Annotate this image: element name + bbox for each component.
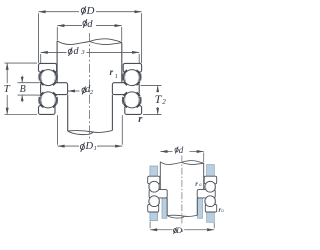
dim phiD1 extension lines: [57, 115, 59, 144]
label T2 letter: [155, 92, 162, 107]
bottom washer right piece: [125, 106, 142, 115]
phi of phid: [83, 19, 87, 28]
dim phid extension lines: [56, 27, 58, 40]
dim T2 extension lines: [141, 85, 162, 87]
ball lower-left: [40, 92, 56, 108]
dim phid line: [57, 25, 82, 27]
cage marks upper-left ball: [39, 74, 57, 81]
small bottom washer left piece: [148, 204, 159, 212]
shaft lower narrow section (phi d2): [68, 95, 113, 135]
label r: [138, 114, 142, 125]
housing left band: [150, 166, 158, 221]
ball upper-left: [40, 70, 56, 86]
small center washer right piece: [197, 190, 215, 198]
label phiD1 subscript: [94, 146, 97, 152]
cage marks upper-right ball: [123, 74, 141, 81]
shaft upper wide section (phi d): [57, 39, 122, 83]
vertical center line (axis): [89, 33, 91, 141]
small ball upper-left: [149, 181, 160, 192]
small top washer left piece: [148, 176, 160, 184]
label phiD letter: [87, 5, 95, 17]
dim B extension lines: [18, 82, 40, 84]
label small ra upper subscript: [199, 183, 202, 188]
dim phiD1 line: [58, 145, 80, 147]
center washer left piece: [41, 83, 68, 95]
small dim phid extension: [203, 153, 205, 163]
label T2 subscript: [162, 98, 166, 106]
small shaft top break line: [160, 161, 203, 165]
label r1 letter: [110, 68, 114, 78]
dim T line: [6, 63, 8, 83]
dim phid3 extension lines: [40, 54, 42, 63]
label phid2 subscript: [90, 89, 93, 96]
small shaft upper section: [159, 162, 161, 190]
label small ra lower subscript: [221, 209, 224, 214]
phi of phid3: [68, 47, 72, 56]
small dim phid line: [160, 151, 172, 153]
label phid3 subscript: [81, 49, 84, 56]
small dim phiDa extension lines: [149, 222, 151, 229]
small shaft bottom break line: [167, 215, 197, 216]
phi of small phid: [175, 147, 178, 154]
cage marks lower-left ball: [39, 97, 57, 104]
shaft sleeve right band: [198, 198, 203, 218]
small ball lower-right: [205, 196, 216, 207]
label small ra lower letter: [219, 206, 222, 214]
dim B arrowheads: [21, 77, 24, 83]
small ball lower-left: [149, 196, 160, 207]
label phiD1 letter: [86, 141, 94, 152]
label small phiDa letter: [176, 226, 182, 235]
phi of phiD1: [80, 143, 84, 152]
dim T extension lines: [5, 62, 38, 64]
dim phiD extension lines: [38, 13, 40, 63]
ball lower-right: [124, 92, 140, 108]
small center line: [181, 156, 183, 226]
label phid2 letter: [85, 84, 90, 95]
small shaft narrow section: [166, 198, 168, 216]
label small ra upper letter: [195, 180, 198, 188]
ball upper-right: [124, 70, 140, 86]
cage marks lower-right ball: [123, 97, 141, 104]
housing shoulder blocks: [150, 165, 214, 223]
small top washer right piece: [204, 176, 217, 184]
label r1 subscript: [115, 73, 118, 80]
dim T2 arrowheads: [156, 86, 159, 93]
phi of small phiDa: [174, 227, 177, 234]
dim phiD line: [39, 11, 80, 13]
small center washer left piece: [149, 190, 167, 198]
label phid letter: [87, 19, 92, 30]
small ball upper-right: [205, 181, 216, 192]
dim T2 line: [157, 86, 159, 92]
dim phid3 line: [41, 51, 67, 53]
label small phiDa subscript: [181, 229, 184, 234]
small bottom washer right piece: [205, 204, 216, 212]
dim phid2 leader with left arrow: [68, 90, 80, 92]
center washer right piece: [112, 83, 139, 95]
top washer right piece: [123, 63, 141, 72]
arrowheads for vertical dimensions: [6, 63, 159, 114]
label phid3 letter: [74, 46, 79, 57]
label small phid letter: [179, 145, 184, 155]
shaft top break line: [57, 39, 122, 45]
phi of phid2: [82, 86, 86, 94]
label T: [4, 83, 10, 95]
phi of phiD: [81, 6, 86, 15]
housing right band: [207, 165, 215, 223]
top washer left piece: [39, 63, 57, 72]
dim B arrow stems: [21, 76, 23, 83]
label B: [20, 84, 26, 95]
shaft bottom break line: [68, 130, 113, 132]
shaft sleeve left band: [162, 198, 167, 218]
bottom washer left piece: [39, 106, 56, 115]
dim T arrowheads: [6, 63, 9, 70]
small dim phiDa line: [150, 229, 172, 231]
